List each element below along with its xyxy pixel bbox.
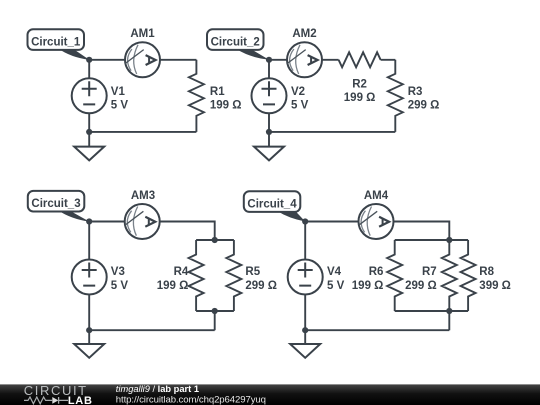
svg-text:AM4: AM4 [364, 190, 389, 202]
svg-text:5 V: 5 V [327, 280, 345, 292]
svg-text:AM2: AM2 [292, 28, 316, 40]
svg-text:timgalli9 / lab part 1: timgalli9 / lab part 1 [116, 384, 199, 394]
svg-text:5 V: 5 V [111, 280, 129, 292]
svg-text:LAB: LAB [68, 395, 93, 405]
svg-text:AM1: AM1 [130, 28, 155, 40]
svg-text:5 V: 5 V [291, 100, 309, 112]
svg-text:Circuit_2: Circuit_2 [211, 37, 260, 49]
svg-text:299 Ω: 299 Ω [408, 100, 440, 112]
svg-text:R8: R8 [479, 266, 494, 278]
svg-text:299 Ω: 299 Ω [405, 280, 437, 292]
svg-text:399 Ω: 399 Ω [479, 280, 511, 292]
svg-text:199 Ω: 199 Ω [210, 100, 242, 112]
svg-text:R3: R3 [408, 86, 423, 98]
svg-text:V2: V2 [291, 86, 305, 98]
svg-text:199 Ω: 199 Ω [352, 280, 384, 292]
svg-text:V1: V1 [111, 86, 126, 98]
svg-text:http://circuitlab.com/chq2p642: http://circuitlab.com/chq2p64297yuq [116, 395, 266, 405]
svg-text:R2: R2 [352, 79, 367, 91]
svg-text:Circuit_4: Circuit_4 [247, 199, 297, 211]
svg-text:R7: R7 [422, 266, 437, 278]
svg-text:199 Ω: 199 Ω [344, 92, 376, 104]
svg-text:R5: R5 [245, 266, 260, 278]
svg-text:299 Ω: 299 Ω [245, 280, 277, 292]
svg-text:199 Ω: 199 Ω [157, 280, 189, 292]
svg-text:AM3: AM3 [131, 190, 155, 202]
svg-text:V4: V4 [327, 266, 342, 278]
svg-text:R1: R1 [210, 86, 225, 98]
svg-text:Circuit_1: Circuit_1 [31, 37, 81, 49]
svg-text:Circuit_3: Circuit_3 [31, 198, 80, 210]
svg-text:5 V: 5 V [111, 100, 129, 112]
svg-text:R6: R6 [369, 266, 384, 278]
svg-text:V3: V3 [111, 266, 125, 278]
svg-text:R4: R4 [174, 266, 189, 278]
